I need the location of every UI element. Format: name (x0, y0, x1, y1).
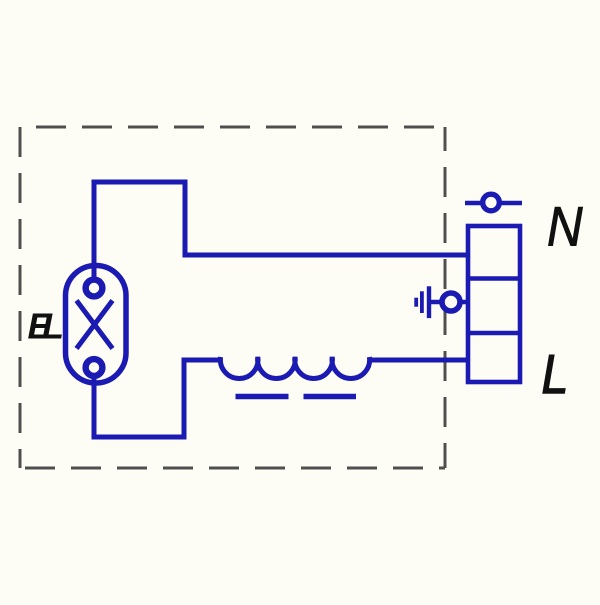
lamp electrode bottom (86, 359, 103, 376)
lamp cross stroke 1 (77, 301, 113, 349)
earth symbol middle bar (420, 291, 424, 313)
earth lead to contact (431, 300, 442, 305)
luminaire enclosure dashed boundary right edge (444, 127, 447, 468)
wire: lamp bottom to ballast (94, 360, 221, 437)
earth contact circle (442, 293, 460, 311)
luminaire enclosure dashed boundary left edge (19, 127, 22, 468)
terminal block X1 (468, 226, 520, 382)
terminal block divider 1 (468, 276, 520, 281)
luminaire enclosure dashed boundary bottom edge (20, 467, 445, 470)
svg-text:N: N (547, 196, 583, 259)
svg-text:EL: EL (28, 306, 63, 347)
earth symbol long bar (427, 286, 431, 318)
lamp cross stroke 2 (77, 301, 113, 349)
inductor core dash 1 (236, 394, 289, 400)
terminal block divider 2 (468, 331, 520, 336)
lamp EL (fluorescent tube envelope) (66, 266, 127, 384)
inductor L1 (ballast choke) (220, 357, 369, 379)
wire: lamp top to terminal N (94, 182, 466, 285)
lamp electrode top (86, 280, 103, 297)
wire: earth contact to terminal block (460, 300, 468, 305)
terminal N lead (465, 201, 522, 206)
luminaire enclosure dashed boundary top edge (20, 126, 445, 129)
inductor core dash 2 (304, 394, 357, 400)
svg-text:L: L (542, 343, 569, 405)
earth symbol short bar (414, 298, 418, 307)
wire: ballast to terminal L (368, 358, 466, 363)
terminal N contact circle (483, 194, 500, 211)
